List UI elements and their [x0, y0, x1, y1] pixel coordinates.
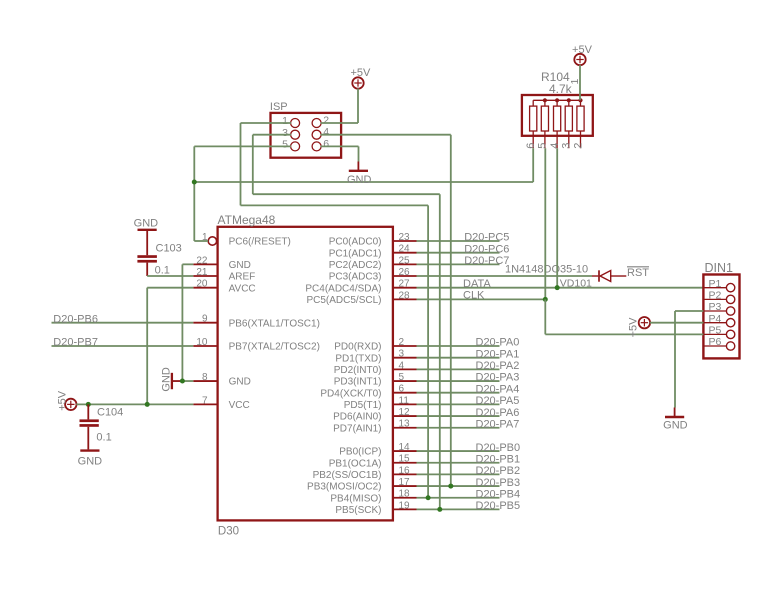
svg-text:+5V: +5V — [627, 317, 639, 338]
IC pin 23 stub — [393, 240, 417, 242]
DIN1 pin P3 circle — [726, 307, 734, 315]
diode VD101 triangle — [600, 271, 611, 282]
svg-text:5: 5 — [399, 372, 405, 383]
svg-text:PD0(RXD): PD0(RXD) — [334, 342, 381, 353]
wire pin8 GND link — [182, 380, 193, 382]
svg-text:PC2(ADC2): PC2(ADC2) — [329, 260, 382, 271]
connector DIN1 body — [703, 275, 739, 359]
svg-text:P3: P3 — [709, 301, 722, 313]
IC pin 20 stub — [193, 287, 217, 289]
svg-text:PB1(OC1A): PB1(OC1A) — [329, 458, 382, 469]
svg-text:D20-PB3: D20-PB3 — [476, 477, 521, 489]
svg-text:P6: P6 — [709, 336, 722, 348]
wire net D20-PB1 — [417, 462, 500, 464]
svg-text:26: 26 — [399, 267, 411, 278]
wire ISP pin3 SCK — [253, 134, 291, 136]
wire ISP pin4 MOSI — [321, 134, 451, 136]
svg-text:4: 4 — [549, 143, 561, 149]
IC pin 17 stub — [393, 485, 417, 487]
DIN1 pin P2 lead — [703, 298, 726, 300]
DIN1 pin P4 circle — [726, 318, 734, 326]
svg-text:PB5(SCK): PB5(SCK) — [335, 505, 381, 516]
wire net D20-PB0 — [417, 450, 500, 452]
svg-text:PC6(/RESET): PC6(/RESET) — [229, 237, 291, 248]
junction pin8 GND — [180, 379, 185, 384]
svg-text:PB6(XTAL1/TOSC1): PB6(XTAL1/TOSC1) — [229, 318, 320, 329]
svg-text:PD4(XCK/T0): PD4(XCK/T0) — [320, 388, 381, 399]
svg-text:GND: GND — [663, 420, 688, 432]
wire RESET pullup horizontal — [194, 181, 533, 183]
junction RESET net — [192, 180, 197, 185]
svg-text:+5V: +5V — [572, 44, 593, 56]
wire net D20-PA5 — [417, 403, 500, 405]
svg-text:D20-PA6: D20-PA6 — [476, 407, 520, 419]
svg-text:6: 6 — [323, 138, 329, 150]
IC pin 12 stub — [393, 415, 417, 417]
svg-text:GND: GND — [229, 377, 251, 388]
IC pin 19 stub — [393, 508, 417, 510]
svg-text:GND: GND — [134, 217, 159, 229]
wire DATA net pin 27 to DIN1 P1 — [417, 287, 704, 289]
R104 resistor element 5 — [577, 106, 584, 131]
wire CLK branch down to P5 — [544, 299, 546, 334]
wire AVCC pin 20 — [147, 287, 193, 289]
svg-text:6: 6 — [525, 143, 537, 149]
svg-text:D20-PA0: D20-PA0 — [476, 337, 520, 349]
wire pin22 GND stub link — [182, 263, 193, 265]
svg-text:5: 5 — [282, 139, 288, 151]
DIN1 pin P6 circle — [726, 342, 734, 350]
junction CLK — [543, 297, 548, 302]
IC pin 27 stub — [393, 287, 417, 289]
IC pin 16 stub — [393, 473, 417, 475]
svg-text:D20-PC6: D20-PC6 — [464, 243, 509, 255]
svg-text:12: 12 — [399, 407, 411, 418]
svg-text:D20-PA1: D20-PA1 — [476, 348, 520, 360]
svg-text:C103: C103 — [156, 242, 182, 254]
wire MISO vertical to PB4 — [427, 205, 429, 497]
connector ISP body — [271, 113, 342, 158]
svg-text:GND: GND — [347, 174, 372, 186]
ISP pin 4 circle — [312, 130, 321, 139]
wire MOSI vertical to PB3 — [450, 135, 452, 486]
R104 resistor element 3 — [554, 106, 561, 131]
wire SCK vertical to PB5 — [439, 194, 441, 509]
svg-text:+5V: +5V — [57, 390, 69, 411]
svg-text:D20-PC7: D20-PC7 — [464, 255, 509, 267]
diode VD101 1N4148 cathode bar — [598, 270, 600, 281]
IC pin 21 stub — [193, 275, 217, 277]
svg-text:1N4148DO35-10: 1N4148DO35-10 — [505, 264, 588, 276]
wire net D20-PB5 — [417, 508, 500, 510]
DIN1 pin P5 lead — [703, 333, 726, 335]
svg-text:PC1(ADC1): PC1(ADC1) — [329, 248, 382, 259]
svg-text:21: 21 — [196, 267, 208, 278]
capacitor C104 lead — [87, 404, 89, 419]
wire ISP pin6 to GND — [321, 145, 359, 147]
wire +5V into R104 pin1 — [579, 65, 581, 100]
svg-text:PC4(ADC4/SDA): PC4(ADC4/SDA) — [305, 283, 381, 294]
svg-text:CLK: CLK — [463, 290, 485, 302]
svg-text:PC0(ADC0): PC0(ADC0) — [329, 237, 382, 248]
R104 internal bus — [533, 99, 580, 101]
wire RST net from pin 26 to diode — [417, 275, 593, 277]
wire net D20-PB6 — [52, 322, 194, 324]
R104 bus junction — [543, 98, 547, 102]
svg-text:D20-PB4: D20-PB4 — [476, 488, 521, 500]
wire net D20-PB4 — [417, 497, 500, 499]
DIN1 pin P3 lead — [703, 310, 726, 312]
svg-text:VCC: VCC — [229, 400, 250, 411]
resistor network R104 body — [522, 95, 593, 136]
IC pin 5 stub — [393, 380, 417, 382]
svg-text:PD7(AIN1): PD7(AIN1) — [333, 423, 381, 434]
R104 bus junction — [555, 98, 559, 102]
wire R104 pin5 to CLK net — [544, 148, 546, 299]
svg-text:ISP: ISP — [270, 101, 288, 113]
+5V supply symbol above R104 — [574, 54, 585, 65]
diode VD101 left lead — [592, 275, 598, 277]
svg-text:3: 3 — [561, 143, 573, 149]
ISP pin 1 circle — [291, 119, 300, 128]
IC pin 13 stub — [393, 427, 417, 429]
svg-text:13: 13 — [399, 419, 411, 430]
svg-text:28: 28 — [399, 290, 411, 301]
svg-text:D20-PB0: D20-PB0 — [476, 442, 521, 454]
IC pin 24 stub — [393, 252, 417, 254]
svg-text:9: 9 — [202, 314, 208, 325]
svg-text:15: 15 — [399, 454, 411, 465]
+5V supply symbol (left) — [65, 399, 76, 410]
svg-text:PB3(MOSI/OC2): PB3(MOSI/OC2) — [307, 482, 381, 493]
svg-text:ATMega48: ATMega48 — [218, 213, 276, 227]
IC pin 22 stub — [193, 263, 217, 265]
svg-text:GND: GND — [161, 367, 173, 392]
IC pin 10 stub — [193, 345, 217, 347]
svg-text:PD6(AIN0): PD6(AIN0) — [333, 412, 381, 423]
R104 bus junction — [567, 98, 571, 102]
svg-text:PD1(TXD): PD1(TXD) — [335, 353, 381, 364]
IC pin 8 stub — [193, 380, 217, 382]
svg-text:3: 3 — [282, 127, 288, 139]
svg-text:P5: P5 — [709, 325, 722, 337]
svg-text:17: 17 — [399, 477, 411, 488]
svg-text:P4: P4 — [709, 313, 722, 325]
R104 resistor element 1 — [530, 106, 537, 131]
R104 bus junction — [578, 98, 582, 102]
svg-text:AREF: AREF — [229, 272, 256, 283]
svg-text:D20-PA5: D20-PA5 — [476, 395, 520, 407]
ISP pin 5 circle — [291, 142, 300, 151]
DIN1 pin P1 circle — [726, 283, 734, 291]
svg-text:2: 2 — [572, 143, 584, 149]
wire net D20-PC7 — [417, 263, 500, 265]
wire net D20-PA6 — [417, 415, 500, 417]
svg-text:D20-PB2: D20-PB2 — [476, 465, 521, 477]
wire net D20-PB7 — [52, 345, 194, 347]
svg-text:24: 24 — [399, 244, 411, 255]
diode VD101 right lead — [611, 275, 627, 277]
svg-text:C104: C104 — [97, 407, 123, 419]
junction MISO PB4 — [426, 495, 431, 500]
wire MISO horizontal — [241, 204, 429, 206]
svg-text:D20-PA4: D20-PA4 — [476, 383, 520, 395]
+5V supply symbol near DIN1 — [639, 317, 650, 328]
svg-text:16: 16 — [399, 465, 411, 476]
IC pin 1 inversion bubble — [208, 237, 216, 245]
svg-text:25: 25 — [399, 255, 411, 266]
IC pin 26 stub — [393, 275, 417, 277]
svg-text:0.1: 0.1 — [96, 431, 111, 443]
DIN1 pin P6 lead — [703, 345, 726, 347]
svg-text:RST: RST — [627, 267, 649, 279]
svg-text:D30: D30 — [218, 526, 239, 538]
junction MOSI PB3 — [448, 484, 453, 489]
IC pin 3 stub — [393, 357, 417, 359]
svg-text:PC3(ADC3): PC3(ADC3) — [329, 272, 382, 283]
IC pin 14 stub — [393, 450, 417, 452]
svg-text:P2: P2 — [709, 290, 722, 302]
svg-text:PB2(SS/OC1B): PB2(SS/OC1B) — [313, 470, 382, 481]
wire net D20-PC6 — [417, 252, 500, 254]
svg-text:PD3(INT1): PD3(INT1) — [334, 377, 382, 388]
svg-text:11: 11 — [399, 395, 410, 406]
R104 resistor element 4 — [565, 106, 572, 131]
wire net D20-PA1 — [417, 357, 500, 359]
svg-text:8: 8 — [202, 372, 208, 383]
wire net D20-PA2 — [417, 368, 500, 370]
capacitor C104 plates — [80, 419, 99, 422]
svg-text:P1: P1 — [709, 278, 722, 290]
IC pin 25 stub — [393, 263, 417, 265]
junction DATA — [555, 285, 560, 290]
svg-text:4: 4 — [399, 360, 405, 371]
IC pin 6 stub — [393, 392, 417, 394]
svg-text:10: 10 — [196, 337, 208, 348]
svg-text:1: 1 — [282, 115, 288, 127]
wire +5V to ISP pin2 — [357, 88, 359, 123]
wire net D20-PA3 — [417, 380, 500, 382]
svg-text:AVCC: AVCC — [229, 283, 256, 294]
wire R104 pin4 to DATA net — [556, 148, 558, 287]
svg-text:D20-PA2: D20-PA2 — [476, 360, 520, 372]
wire net D20-PB3 — [417, 485, 500, 487]
C104 lead to ground — [87, 427, 89, 450]
svg-text:PB4(MISO): PB4(MISO) — [330, 493, 381, 504]
wire net D20-PA4 — [417, 392, 500, 394]
svg-text:D20-PB6: D20-PB6 — [53, 313, 98, 325]
wire net D20-PC5 — [417, 240, 500, 242]
wire RESET to pin 1 bubble — [194, 240, 208, 242]
R104 resistor element 2 — [541, 106, 548, 131]
IC U1 ATMega48 body — [218, 227, 393, 521]
C103 lead down to AREF wire — [146, 263, 148, 276]
ISP pin 3 circle — [291, 130, 300, 139]
wire ISP pin1 MISO — [241, 122, 292, 124]
IC pin 15 stub — [393, 462, 417, 464]
IC pin 4 stub — [393, 368, 417, 370]
svg-text:4: 4 — [323, 126, 329, 138]
svg-text:DIN1: DIN1 — [705, 261, 734, 275]
wire SCK horizontal — [253, 193, 440, 195]
svg-text:20: 20 — [196, 279, 208, 290]
svg-text:PC5(ADC5/SCL): PC5(ADC5/SCL) — [306, 295, 381, 306]
svg-text:D20-PC5: D20-PC5 — [464, 232, 509, 244]
svg-text:D20-PA3: D20-PA3 — [476, 372, 520, 384]
svg-text:PB0(ICP): PB0(ICP) — [339, 447, 381, 458]
ground symbol below ISP — [357, 162, 359, 171]
+5V supply symbol above ISP — [352, 77, 363, 88]
svg-text:14: 14 — [399, 442, 411, 453]
svg-text:7: 7 — [202, 395, 208, 406]
svg-text:D20-PB7: D20-PB7 — [53, 337, 98, 349]
ISP pin 6 circle — [312, 142, 321, 151]
wire RESET vertical (ISP pin5 to IC pin1) — [193, 146, 195, 241]
junction SCK PB5 — [437, 507, 442, 512]
svg-text:PB7(XTAL2/TOSC2): PB7(XTAL2/TOSC2) — [229, 342, 320, 353]
junction AVCC riser — [145, 402, 150, 407]
wire CLK net pin 28 — [417, 298, 546, 300]
svg-text:+5V: +5V — [350, 67, 371, 79]
IC pin 18 stub — [393, 497, 417, 499]
IC pin 28 stub — [393, 298, 417, 300]
svg-text:18: 18 — [399, 489, 411, 500]
wire +5V to DIN1 P4 — [650, 322, 704, 324]
wire ISP pin5 RESET — [194, 145, 291, 147]
svg-text:D20-PA7: D20-PA7 — [476, 418, 520, 430]
wire net D20-PA0 — [417, 345, 500, 347]
svg-text:0.1: 0.1 — [155, 265, 170, 277]
ground symbol at pin 8 (rotated) — [173, 380, 182, 382]
wire net D20-PB2 — [417, 473, 500, 475]
wire AREF to pin 21 — [147, 275, 193, 277]
svg-text:GND: GND — [229, 260, 251, 271]
wire net D20-PA7 — [417, 427, 500, 429]
IC pin 7 stub — [193, 403, 217, 405]
wire pin22 GND down — [181, 264, 183, 381]
DIN1 pin P1 lead — [703, 287, 726, 289]
ISP pin 2 circle — [312, 119, 321, 128]
svg-text:3: 3 — [399, 349, 405, 360]
wire to DIN1 P5 — [545, 333, 703, 335]
wire +5V to VCC pin 7 — [76, 403, 193, 405]
svg-text:27: 27 — [399, 279, 411, 290]
svg-text:5: 5 — [537, 143, 549, 149]
svg-text:2: 2 — [323, 114, 329, 126]
IC pin 2 stub — [393, 345, 417, 347]
svg-text:6: 6 — [399, 384, 405, 395]
DIN1 pin P5 circle — [726, 330, 734, 338]
ground symbol below C104 — [80, 449, 99, 451]
wire DIN1 P3 to ground — [675, 310, 703, 312]
svg-text:19: 19 — [399, 500, 411, 511]
svg-text:22: 22 — [196, 255, 208, 266]
IC pin 9 stub — [193, 322, 217, 324]
wire R104 pin6 to RESET net — [532, 148, 534, 182]
DIN1 pin P4 lead — [703, 322, 726, 324]
svg-text:PD5(T1): PD5(T1) — [344, 400, 382, 411]
DIN1 pin P2 circle — [726, 295, 734, 303]
svg-text:GND: GND — [78, 456, 103, 468]
svg-text:D20-PB5: D20-PB5 — [476, 500, 521, 512]
svg-text:D20-PB1: D20-PB1 — [476, 453, 521, 465]
svg-text:2: 2 — [399, 337, 405, 348]
svg-text:23: 23 — [399, 232, 411, 243]
junction C104 top — [86, 402, 91, 407]
svg-text:PD2(INT0): PD2(INT0) — [334, 365, 382, 376]
IC pin 11 stub — [393, 403, 417, 405]
capacitor C103 plates — [137, 255, 157, 258]
ground symbol below DIN1 — [674, 408, 676, 417]
svg-text:DATA: DATA — [463, 278, 491, 290]
